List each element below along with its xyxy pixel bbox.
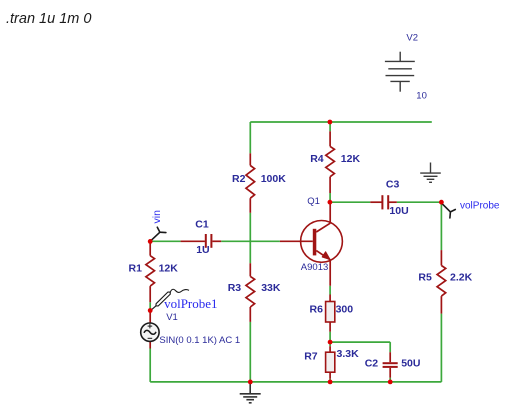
- svg-text:vin: vin: [151, 210, 163, 224]
- svg-text:33K: 33K: [261, 282, 281, 294]
- svg-text:10U: 10U: [389, 205, 408, 217]
- svg-text:R3: R3: [228, 282, 242, 294]
- svg-text:R1: R1: [129, 262, 143, 274]
- svg-text:12K: 12K: [159, 262, 179, 274]
- svg-text:2.2K: 2.2K: [450, 272, 473, 284]
- svg-text:R5: R5: [418, 272, 432, 284]
- svg-text:12K: 12K: [341, 153, 361, 165]
- svg-text:SIN(0 0.1 1K) AC 1: SIN(0 0.1 1K) AC 1: [159, 335, 240, 346]
- svg-text:.tran 1u 1m 0: .tran 1u 1m 0: [6, 11, 91, 27]
- svg-text:C2: C2: [365, 357, 379, 369]
- svg-text:C3: C3: [386, 179, 400, 191]
- svg-text:R7: R7: [304, 350, 318, 362]
- svg-text:V2: V2: [406, 33, 418, 44]
- svg-text:R4: R4: [310, 153, 324, 165]
- svg-text:C1: C1: [195, 219, 209, 231]
- svg-text:R6: R6: [310, 304, 324, 316]
- svg-text:1U: 1U: [196, 244, 209, 256]
- svg-text:volProbe: volProbe: [460, 201, 500, 212]
- svg-text:50U: 50U: [401, 357, 420, 369]
- svg-text:100K: 100K: [261, 173, 287, 185]
- svg-text:A9013: A9013: [301, 262, 328, 273]
- svg-text:300: 300: [336, 304, 354, 316]
- svg-text:10: 10: [416, 91, 427, 102]
- svg-text:R2: R2: [232, 173, 246, 185]
- svg-text:3.3K: 3.3K: [337, 348, 360, 360]
- svg-text:V1: V1: [166, 312, 178, 323]
- svg-text:Q1: Q1: [307, 196, 320, 207]
- svg-text:volProbe1: volProbe1: [164, 296, 217, 311]
